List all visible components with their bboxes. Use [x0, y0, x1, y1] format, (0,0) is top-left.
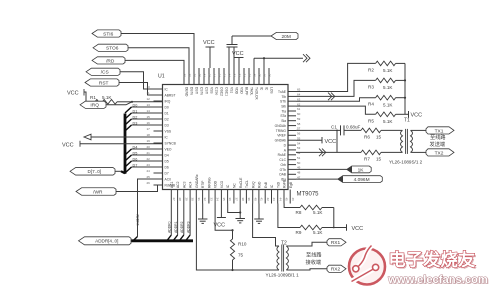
svg-text:/WR: /WR	[93, 189, 103, 195]
U1 right pins with numbers and names	[275, 88, 301, 182]
svg-text:发送端: 发送端	[430, 140, 446, 148]
svg-text:60: 60	[297, 112, 301, 116]
net flag 1K tip fill	[347, 166, 352, 172]
svg-text:OSC2: OSC2	[220, 87, 224, 96]
svg-text:VSS: VSS	[165, 129, 172, 133]
wire U1 pin to R3	[296, 80, 376, 96]
bus entries D4-D7	[125, 145, 137, 173]
wire AC0 row to ADDR bus	[136, 179, 163, 237]
wire T2 to RX2	[286, 269, 327, 270]
svg-text:ADDR[4..0]: ADDR[4..0]	[95, 239, 118, 244]
svg-text:15: 15	[376, 157, 382, 162]
svg-text:VREF: VREF	[277, 134, 286, 138]
svg-text:电子发烧友: 电子发烧友	[389, 250, 477, 270]
power flag VCC (top left, feeds R1)	[67, 89, 84, 97]
svg-text:VCC: VCC	[67, 91, 79, 97]
svg-text:R1: R1	[90, 95, 96, 100]
watermark url	[387, 274, 489, 287]
svg-text:www.elecfans.com: www.elecfans.com	[387, 274, 488, 286]
svg-text:TxD: TxD	[276, 181, 280, 188]
svg-text:ADDR1: ADDR1	[174, 221, 178, 233]
wire T2 to RX1	[286, 242, 327, 246]
svg-text:R9: R9	[296, 230, 302, 235]
svg-text:VCC: VCC	[62, 142, 74, 148]
svg-text:MT9075: MT9075	[297, 192, 320, 198]
net flag ADDR[4..0]	[79, 237, 132, 245]
bus entry ADDR4	[133, 237, 138, 241]
svg-text:11: 11	[147, 91, 150, 95]
svg-text:30: 30	[191, 198, 195, 202]
svg-text:56: 56	[297, 132, 301, 136]
svg-text:67: 67	[263, 73, 267, 77]
svg-text:50: 50	[297, 161, 301, 165]
svg-text:69: 69	[253, 73, 257, 77]
svg-text:78: 78	[208, 73, 212, 77]
svg-text:接收端: 接收端	[306, 258, 322, 266]
svg-text:VCC: VCC	[411, 113, 423, 119]
net flag 4.096M	[296, 176, 382, 183]
left net flag /WR	[76, 188, 116, 196]
svg-text:R10: R10	[238, 242, 247, 247]
op IC U1 MT9075 body	[158, 74, 319, 198]
svg-text:ADDR4: ADDR4	[136, 214, 140, 226]
svg-text:R5: R5	[368, 118, 374, 123]
svg-text:TRING: TRING	[276, 129, 287, 133]
resistor R10 75	[230, 230, 246, 271]
svg-text:LOS: LOS	[270, 87, 274, 94]
wire U1 pin to T2 top	[253, 204, 279, 247]
resistor R2 5.1K	[368, 61, 405, 73]
svg-text:R4: R4	[368, 102, 374, 107]
svg-text:C1So: C1So	[215, 87, 219, 95]
svg-text:VCO: VCO	[220, 180, 224, 188]
svg-text:T1: T1	[404, 118, 410, 124]
svg-text:R7: R7	[364, 157, 370, 162]
power flag VCC (right mid)	[296, 137, 336, 145]
wire STI6 to U1 top pin	[121, 34, 194, 69]
svg-text:Sia: Sia	[281, 119, 286, 123]
wire U1 pin to R9	[278, 204, 300, 228]
svg-text:71: 71	[243, 73, 247, 77]
svg-text:D0: D0	[165, 105, 169, 109]
svg-text:至线路: 至线路	[306, 251, 322, 259]
net flag TX2	[426, 149, 454, 157]
wire IRQ to U1 pin, junction with R1	[106, 101, 163, 105]
svg-text:24: 24	[147, 169, 151, 173]
svg-text:5.1K: 5.1K	[313, 230, 323, 235]
bus entries ADDR0-ADDR3	[167, 204, 191, 241]
wire /RD to U1 top pin	[125, 60, 184, 68]
wire U1 pin to R10 top	[215, 204, 233, 232]
U1 left pins with numbers and names	[147, 85, 177, 187]
svg-text:Orb: Orb	[281, 163, 287, 167]
svg-text:IDa: IDa	[281, 178, 286, 182]
svg-text:27: 27	[172, 198, 176, 202]
svg-text:CLC: CLC	[279, 158, 286, 162]
svg-text:61: 61	[297, 107, 301, 111]
ADDR bus (thick)	[131, 239, 193, 242]
svg-text:TX2: TX2	[435, 150, 444, 156]
svg-text:BLPF: BLPF	[245, 87, 249, 95]
svg-text:Sib: Sib	[281, 105, 286, 109]
svg-text:41: 41	[260, 198, 264, 202]
ground (bottom, mid) with L-wire	[228, 204, 245, 223]
svg-text:TAOL: TAOL	[250, 87, 254, 96]
svg-text:42: 42	[266, 198, 270, 202]
net flag 1K	[296, 166, 371, 173]
wires D0-D7 rows to pins	[132, 107, 154, 167]
bus entries D0-D3	[125, 103, 137, 131]
svg-text:72: 72	[238, 73, 242, 77]
wire to off-page arrow (top right)	[254, 57, 303, 68]
svg-text:51: 51	[297, 156, 301, 160]
svg-text:35: 35	[222, 198, 226, 202]
svg-text:70: 70	[248, 73, 252, 77]
ground (bottom, right)	[254, 204, 264, 224]
resistor R6 15	[361, 128, 400, 140]
net flag RX2	[327, 265, 346, 273]
svg-text:26: 26	[147, 181, 151, 185]
power flag VCC (left mid)	[62, 141, 163, 149]
net flag 20M	[232, 32, 298, 40]
capacitor C1 0.68uF	[331, 125, 361, 136]
resistor R8 5.1K	[296, 205, 334, 215]
transformer T1 YL26-1089S/1:2	[400, 118, 426, 154]
svg-text:74: 74	[228, 73, 232, 77]
svg-text:AC0: AC0	[165, 177, 172, 181]
svg-text:IRQ: IRQ	[90, 103, 99, 109]
svg-text:D6: D6	[165, 165, 169, 169]
svg-text:0.68uF: 0.68uF	[346, 125, 360, 130]
svg-text:33: 33	[210, 198, 214, 202]
svg-text:10: 10	[147, 85, 151, 89]
resistor R7 15	[361, 150, 400, 162]
svg-text:U1: U1	[158, 74, 165, 80]
svg-text:RTIP: RTIP	[201, 180, 205, 188]
svg-text:19: 19	[147, 139, 151, 143]
resistor R3 5.1K	[368, 78, 405, 90]
wire STO6 to U1 top pin	[128, 48, 189, 68]
U1 bottom pins with numbers and names	[170, 174, 295, 203]
resistor R4 5.1K	[368, 95, 405, 107]
svg-text:79: 79	[203, 73, 207, 77]
net flag 4.096M tip fill	[338, 176, 343, 182]
svg-text:R2: R2	[368, 67, 374, 72]
svg-text:GNDARx: GNDARx	[195, 174, 199, 188]
left net flag /CS	[86, 68, 120, 76]
U1 top pins with numbers and names	[183, 68, 274, 100]
svg-text:48: 48	[297, 171, 301, 175]
svg-text:43: 43	[272, 198, 276, 202]
off-page chevron on R3 wire	[328, 93, 335, 101]
svg-text:4.096M: 4.096M	[354, 177, 370, 183]
svg-text:D1: D1	[165, 111, 169, 115]
svg-text:5.1K: 5.1K	[383, 119, 393, 124]
svg-text:5.1K: 5.1K	[313, 210, 323, 215]
svg-text:17: 17	[147, 127, 151, 131]
resistor R1 5.1K	[90, 95, 132, 104]
svg-text:28: 28	[178, 198, 182, 202]
svg-text:ABRST: ABRST	[165, 93, 176, 97]
bus wire D[7..0] flag to bus	[115, 171, 125, 173]
wire U1 pin to T2 bottom	[196, 204, 279, 271]
svg-text:R6: R6	[364, 135, 370, 140]
svg-text:VS1: VS1	[230, 87, 234, 93]
watermark text elecfans	[389, 250, 478, 272]
svg-text:52: 52	[297, 151, 301, 155]
ground (bottom, left)	[198, 204, 208, 224]
label to-line transmit end	[430, 133, 447, 148]
net flag TX1	[426, 127, 454, 135]
watermark logo circle	[349, 246, 385, 285]
svg-text:83: 83	[183, 73, 187, 77]
power flag VCC (above U1, second)	[232, 51, 244, 68]
crystal Y1 between OSC pins	[227, 36, 238, 68]
svg-text:18: 18	[147, 133, 151, 137]
svg-text:GNDAb: GNDAb	[275, 139, 287, 143]
svg-text:54: 54	[297, 141, 301, 145]
label YL26-1089B/1:1	[266, 272, 300, 277]
svg-text:DEND: DEND	[185, 87, 189, 97]
svg-text:37: 37	[235, 198, 239, 202]
left net flag IRQ	[80, 101, 106, 109]
resistor R9 5.1K	[296, 225, 324, 235]
left net flag STI6	[92, 30, 121, 38]
svg-text:/CS: /CS	[101, 70, 109, 76]
svg-text:VSD: VSD	[240, 87, 244, 94]
resistor R5 5.1K	[368, 112, 405, 124]
svg-text:VSS: VSS	[210, 87, 214, 94]
svg-text:IRQ: IRQ	[165, 99, 171, 103]
svg-text:75: 75	[223, 73, 227, 77]
svg-text:R8: R8	[296, 210, 302, 215]
svg-text:RX2: RX2	[331, 267, 341, 273]
svg-text:YL26-1089B/1 1: YL26-1089B/1 1	[266, 272, 300, 277]
svg-text:80: 80	[198, 73, 202, 77]
svg-text:D5: D5	[165, 159, 169, 163]
svg-text:53: 53	[297, 146, 301, 150]
wire U1 pin to R7, off-page chevron	[296, 149, 361, 157]
off-page connector arrow (top right)	[303, 54, 310, 62]
svg-text:/RD: /RD	[106, 58, 115, 64]
svg-text:RxAE: RxAE	[278, 153, 287, 157]
svg-text:RxQ: RxQ	[251, 181, 255, 188]
wire /WR to U1 left pin	[116, 185, 163, 192]
svg-text:45: 45	[285, 198, 289, 202]
svg-text:39: 39	[247, 198, 251, 202]
svg-text:1K: 1K	[358, 167, 365, 173]
svg-text:32: 32	[203, 198, 207, 202]
svg-text:AC1: AC1	[170, 181, 174, 188]
svg-text:ADDR0: ADDR0	[168, 221, 172, 233]
svg-text:58: 58	[297, 122, 301, 126]
svg-text:RX1: RX1	[331, 240, 341, 246]
svg-text:73: 73	[233, 73, 237, 77]
svg-text:VEO: VEO	[165, 147, 172, 151]
svg-text:75: 75	[238, 253, 244, 258]
svg-text:VDD: VDD	[214, 180, 218, 188]
svg-text:5.1K: 5.1K	[383, 85, 393, 90]
svg-text:44: 44	[278, 198, 282, 202]
svg-text:D4: D4	[165, 153, 169, 157]
svg-text:DSTo: DSTo	[190, 87, 194, 95]
svg-text:AC4: AC4	[189, 181, 193, 188]
svg-text:SYNCB: SYNCB	[165, 141, 177, 145]
svg-text:AC3: AC3	[182, 181, 186, 188]
svg-text:TxAE: TxAE	[278, 90, 287, 94]
svg-text:RxCLE: RxCLE	[239, 177, 243, 188]
svg-text:VDD: VDD	[235, 87, 239, 95]
svg-text:20M: 20M	[282, 34, 291, 40]
svg-text:77: 77	[213, 73, 217, 77]
VCC rail right of R2-R5	[404, 63, 422, 118]
svg-text:36: 36	[228, 198, 232, 202]
wire VCC to R1	[84, 92, 95, 102]
svg-text:STb: STb	[280, 100, 286, 104]
svg-text:D7: D7	[165, 171, 169, 175]
left net flag /RD	[92, 57, 125, 65]
svg-text:CSTo: CSTo	[200, 87, 204, 95]
svg-text:R3: R3	[368, 84, 374, 89]
svg-text:Tib: Tib	[282, 95, 287, 99]
power flag VCC (above U1)	[203, 40, 215, 68]
svg-text:OTb: OTb	[280, 168, 287, 172]
svg-text:12: 12	[147, 97, 151, 101]
svg-text:ADDR3: ADDR3	[186, 221, 190, 233]
svg-text:TxOLCK: TxOLCK	[255, 87, 259, 100]
svg-text:OAB: OAB	[279, 173, 287, 177]
left net flag STO6	[93, 44, 128, 52]
svg-text:NC: NC	[233, 183, 237, 188]
svg-text:76: 76	[218, 73, 222, 77]
svg-text:GNDAb: GNDAb	[275, 124, 287, 128]
svg-text:TxCL: TxCL	[245, 180, 249, 188]
wire C1 node down to R7 row	[336, 130, 338, 153]
svg-text:TX1: TX1	[435, 128, 444, 134]
svg-text:40: 40	[253, 198, 257, 202]
svg-text:RxD: RxD	[258, 181, 262, 188]
svg-text:46: 46	[291, 198, 295, 202]
svg-text:D3: D3	[165, 123, 169, 127]
svg-text:15: 15	[376, 135, 382, 140]
svg-text:VCC: VCC	[325, 139, 337, 145]
svg-text:VCC: VCC	[352, 226, 364, 232]
svg-text:59: 59	[297, 117, 301, 121]
svg-text:OSC1: OSC1	[225, 87, 229, 96]
svg-text:5.1K: 5.1K	[383, 68, 393, 73]
net flag D[7..0]	[70, 168, 115, 176]
input arrow (left, row 137)	[84, 134, 163, 140]
data bus D[7..0] (thick)	[124, 114, 127, 174]
svg-text:31: 31	[197, 198, 201, 202]
svg-text:VCC: VCC	[203, 40, 215, 46]
svg-text:EsB: EsB	[264, 181, 268, 188]
svg-text:34: 34	[216, 198, 220, 202]
label to-line receive end	[306, 251, 323, 267]
wire U1 pin to C1	[296, 129, 341, 131]
svg-text:29: 29	[184, 198, 188, 202]
net flag RX1	[327, 239, 346, 247]
svg-text:DSTi: DSTi	[195, 87, 199, 94]
svg-text:RST: RST	[99, 80, 109, 86]
power flag VCC (bottom)	[214, 204, 226, 229]
svg-text:EgB: EgB	[289, 181, 293, 188]
svg-text:66: 66	[268, 73, 272, 77]
wire /CS to U1 left pin	[120, 72, 163, 89]
svg-text:YL26-1089S/1 2: YL26-1089S/1 2	[389, 160, 423, 165]
svg-text:C1: C1	[331, 125, 337, 130]
wire RST to U1 left pin	[119, 83, 163, 96]
svg-text:STO6: STO6	[106, 46, 119, 52]
svg-text:STI6: STI6	[103, 31, 113, 37]
wire U1 pin to R5	[296, 106, 376, 114]
svg-text:82: 82	[188, 73, 192, 77]
svg-text:ADDR2: ADDR2	[180, 221, 184, 233]
svg-text:AC2: AC2	[176, 181, 180, 188]
svg-text:38: 38	[241, 198, 245, 202]
left net flag RST	[85, 79, 119, 87]
wire U1 pin to R4	[296, 98, 376, 102]
transformer T2 YL26-1089B/1:1	[277, 240, 289, 271]
svg-text:D[7..0]: D[7..0]	[88, 169, 102, 174]
svg-text:25: 25	[147, 175, 151, 179]
svg-text:至线路: 至线路	[430, 133, 446, 141]
svg-text:CSTi: CSTi	[205, 87, 209, 94]
svg-text:5.1K: 5.1K	[102, 95, 112, 100]
svg-text:68: 68	[258, 73, 262, 77]
svg-text:RRING: RRING	[208, 177, 212, 188]
wire U1 pin to R2	[296, 63, 376, 91]
svg-text:5.1K: 5.1K	[383, 102, 393, 107]
VCC rail for R8/R9	[322, 208, 363, 232]
svg-text:D2: D2	[165, 117, 169, 121]
svg-text:STa: STa	[280, 114, 286, 118]
wire U1 pin to R8	[284, 204, 300, 208]
svg-text:81: 81	[193, 73, 197, 77]
label YL26-1089S/1:2	[389, 160, 423, 165]
svg-text:Tia: Tia	[282, 109, 287, 113]
